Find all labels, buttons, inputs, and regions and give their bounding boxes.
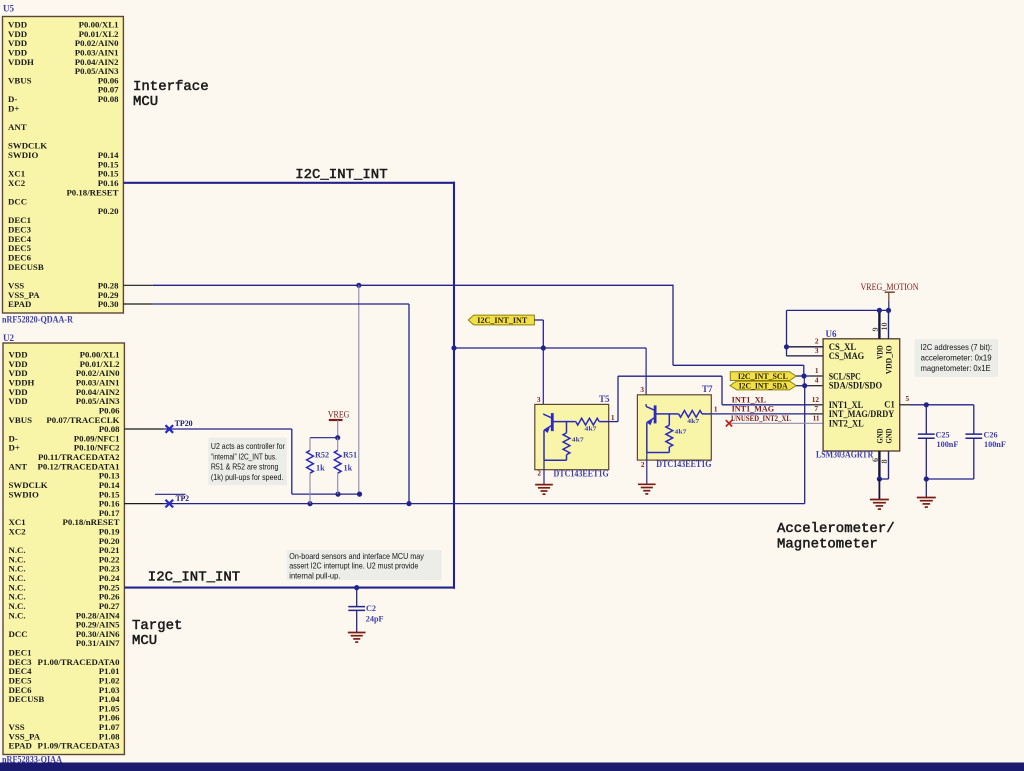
svg-text:SWDIO: SWDIO [9, 489, 39, 499]
note I2C addresses [915, 339, 999, 377]
junction R52 bottom [307, 501, 312, 506]
wire R52-R51 tops [310, 437, 338, 439]
ground T5 [535, 484, 553, 486]
svg-text:D+: D+ [8, 103, 19, 113]
pin stub U6.7 [810, 413, 823, 415]
svg-text:XC2: XC2 [8, 178, 26, 188]
TP2 bar [155, 493, 186, 495]
IC U6 LSM303AGRTR [823, 339, 900, 451]
wire caps to ground [925, 479, 927, 498]
wire CS_MAG [787, 355, 824, 357]
svg-text:4k7: 4k7 [585, 425, 597, 432]
svg-text:3: 3 [640, 385, 644, 394]
svg-text:DECUSB: DECUSB [9, 694, 45, 704]
svg-text:assert I2C interrupt line. U2: assert I2C interrupt line. U2 must provi… [289, 561, 418, 571]
svg-text:I2C_INT_SCL: I2C_INT_SCL [738, 372, 788, 381]
global label I2C_INT_INT [468, 315, 534, 325]
junction R51 bottom [335, 492, 340, 497]
wire SCL from U5.P0.28 [153, 284, 673, 286]
svg-text:ANT: ANT [9, 461, 28, 471]
testpoint TP2 [166, 500, 174, 508]
svg-text:5: 5 [906, 394, 910, 403]
svg-text:4k7: 4k7 [675, 429, 687, 436]
svg-text:magnetometer: 0x1E: magnetometer: 0x1E [921, 363, 991, 373]
svg-text:LSM303AGRTR: LSM303AGRTR [816, 449, 874, 459]
svg-text:I2C_INT_INT: I2C_INT_INT [477, 316, 527, 325]
wire INT1_MAG [712, 413, 810, 415]
svg-text:I2C_INT_INT: I2C_INT_INT [295, 167, 387, 183]
svg-text:N.C.: N.C. [9, 610, 26, 620]
wire SCL riser to R51 [358, 285, 360, 494]
svg-text:3: 3 [537, 395, 541, 404]
ground U6 [870, 499, 889, 501]
svg-text:On-board sensors and interface: On-board sensors and interface MCU may [289, 551, 424, 561]
IC U5 nRF52820 interface MCU [3, 17, 124, 314]
svg-text:1: 1 [611, 413, 615, 422]
capacitor C26 [973, 405, 975, 434]
svg-text:R52: R52 [315, 451, 329, 460]
capacitor C2 [356, 588, 358, 607]
wire U6 pin9 [878, 310, 880, 338]
wire I2C_INT_INT top (U5.P0.16) [123, 182, 455, 184]
wire I2C_INT_INT vertical [453, 182, 455, 589]
junction SDA drop [406, 501, 411, 506]
svg-text:C1: C1 [884, 400, 895, 410]
pin stub U5.P0.30 [123, 303, 152, 305]
wire U6 pin10 [888, 310, 890, 338]
svg-text:R51 & R52 are strong: R51 & R52 are strong [211, 462, 279, 472]
svg-text:100nF: 100nF [937, 440, 959, 449]
svg-text:U2: U2 [3, 333, 14, 343]
wire label to branch [534, 319, 543, 321]
junction int branch [451, 345, 456, 350]
svg-text:EPAD: EPAD [8, 299, 31, 309]
svg-text:“internal” I2C_INT bus.: “internal” I2C_INT bus. [211, 451, 277, 461]
junction SDA [802, 383, 807, 388]
pin stub U2.P0.08 [124, 428, 163, 430]
svg-text:1: 1 [815, 366, 819, 375]
svg-text:1k: 1k [316, 464, 325, 473]
ground T7 [638, 483, 656, 485]
junction SCL/R51 riser [356, 283, 361, 288]
global label I2C_INT_SCL [730, 372, 796, 381]
svg-text:4k7: 4k7 [687, 418, 699, 425]
svg-text:U2 acts as controller for: U2 acts as controller for [211, 441, 285, 451]
svg-text:2: 2 [815, 337, 819, 346]
pin stub U5.P0.28 [123, 284, 152, 286]
svg-text:VBUS: VBUS [8, 75, 32, 85]
pin stub U6.1 [810, 375, 823, 377]
svg-text:EPAD: EPAD [9, 741, 32, 751]
svg-text:DCC: DCC [9, 629, 28, 639]
svg-text:4k7: 4k7 [572, 436, 584, 443]
svg-text:INT2_XL: INT2_XL [829, 419, 864, 429]
junction SCL [801, 373, 806, 378]
junction SCL corner [357, 492, 362, 497]
wire SDA label to pin4 [796, 385, 810, 387]
svg-text:11: 11 [813, 413, 820, 422]
svg-text:CS_MAG: CS_MAG [829, 352, 865, 362]
svg-text:DECUSB: DECUSB [8, 262, 44, 272]
capacitor C25 [925, 405, 927, 434]
junction caps gnd [924, 476, 929, 481]
resistor R51 [337, 438, 339, 451]
svg-text:ANT: ANT [8, 122, 27, 132]
svg-text:Accelerometer/: Accelerometer/ [777, 521, 895, 537]
junction R51 top [335, 435, 340, 440]
svg-text:U6: U6 [826, 329, 837, 339]
svg-text:internal pull-up.: internal pull-up. [289, 570, 340, 580]
wire SCL from U2.P0.08 (TP20) [163, 428, 292, 430]
junction pin10 [886, 308, 891, 313]
note pullups [208, 438, 286, 486]
svg-text:TP20: TP20 [175, 418, 193, 428]
wire U6 pin8 [888, 451, 890, 479]
transistor T5 DTC143EET1G [535, 404, 609, 469]
wire I2C_INT_INT bottom (U2.P0.25) [124, 587, 455, 589]
svg-text:1k: 1k [344, 464, 353, 473]
svg-text:DTC143EET1G: DTC143EET1G [656, 459, 711, 469]
IC U2 nRF52833 target MCU [3, 343, 124, 755]
no-connect X [726, 420, 732, 426]
svg-text:T7: T7 [702, 384, 713, 394]
svg-text:P1.09/TRACEDATA3: P1.09/TRACEDATA3 [37, 741, 120, 751]
svg-text:P0.20: P0.20 [98, 206, 119, 216]
ground C25 C26 [917, 497, 936, 499]
wire VDD rail [787, 309, 889, 311]
wire SCL label to pin1 [796, 375, 810, 377]
svg-text:I2C_INT_INT: I2C_INT_INT [148, 569, 240, 585]
svg-text:1: 1 [714, 405, 718, 414]
svg-text:I2C addresses (7 bit):: I2C addresses (7 bit): [921, 342, 993, 352]
resistor R52 [309, 438, 311, 451]
svg-text:7: 7 [814, 404, 818, 413]
svg-text:I2C_INT_SDA: I2C_INT_SDA [739, 382, 788, 391]
wire C1 pin5 [910, 404, 974, 406]
svg-text:12: 12 [812, 395, 820, 404]
wire int branch [454, 347, 646, 349]
svg-text:2: 2 [537, 469, 541, 478]
svg-text:Magnetometer: Magnetometer [777, 537, 878, 553]
svg-text:Interface: Interface [133, 79, 209, 95]
junction pin9 [877, 308, 882, 313]
svg-text:GND: GND [884, 429, 894, 444]
sheet frame bar [0, 763, 1024, 771]
junction label drop [541, 345, 546, 350]
wire U6 pin6 [878, 451, 880, 479]
svg-text:DTC143EET1G: DTC143EET1G [554, 469, 609, 479]
svg-text:R51: R51 [343, 451, 357, 460]
svg-text:P0.31/AIN7: P0.31/AIN7 [76, 638, 120, 648]
svg-text:VREG: VREG [328, 409, 350, 419]
svg-text:SDA/SDI/SDO: SDA/SDI/SDO [829, 382, 883, 392]
wire T7 collector [645, 348, 647, 405]
wire to ground [878, 479, 880, 500]
svg-text:TP2: TP2 [176, 493, 190, 503]
wire T5 collector [542, 348, 544, 414]
wire scl-sda segment [803, 376, 805, 386]
svg-text:accelerometer: 0x19: accelerometer: 0x19 [921, 352, 992, 362]
svg-text:Target: Target [132, 618, 182, 634]
svg-text:MCU: MCU [132, 633, 157, 649]
pin stub U6.5 [900, 404, 910, 406]
junction gnd [877, 476, 882, 481]
svg-text:P0.08: P0.08 [98, 94, 119, 104]
svg-text:VDD: VDD [9, 396, 28, 406]
wire caps bottom [926, 478, 974, 480]
wire INT1_XL [609, 421, 618, 423]
junction C25 top [924, 402, 929, 407]
svg-text:C25: C25 [936, 431, 950, 440]
pin stub U6.4 [810, 385, 823, 387]
svg-text:SWDIO: SWDIO [8, 150, 38, 160]
svg-text:T5: T5 [599, 394, 610, 404]
svg-text:D+: D+ [9, 443, 20, 453]
svg-text:VREG_MOTION: VREG_MOTION [861, 282, 919, 292]
svg-text:C2: C2 [366, 604, 376, 613]
ground C2 [348, 632, 366, 634]
svg-text:24pF: 24pF [366, 615, 384, 624]
svg-text:100nF: 100nF [984, 440, 1006, 449]
svg-text:VDD_IO: VDD_IO [884, 345, 894, 374]
svg-text:8: 8 [880, 459, 889, 463]
transistor T7 DTC143EET1G [637, 395, 711, 460]
svg-text:nRF52820-QDAA-R: nRF52820-QDAA-R [2, 315, 73, 325]
testpoint TP20 [166, 425, 174, 433]
pin stub U2.P0.16 [124, 503, 163, 505]
svg-text:P0.18/RESET: P0.18/RESET [66, 187, 118, 197]
global label I2C_INT_SDA [730, 381, 796, 390]
wire SDA from U2.P0.16 (TP2) [163, 503, 805, 505]
svg-text:(1k) pull-ups for speed.: (1k) pull-ups for speed. [211, 472, 284, 482]
svg-text:U5: U5 [3, 4, 14, 14]
wire gnd join [879, 478, 888, 480]
note interrupt [287, 550, 442, 580]
svg-text:4: 4 [815, 376, 819, 385]
svg-text:VBUS: VBUS [9, 415, 33, 425]
wire SDA from U5.P0.30 [153, 303, 409, 305]
svg-text:10: 10 [880, 322, 889, 330]
svg-text:P0.30: P0.30 [98, 299, 119, 309]
pin stub U6.12 [810, 404, 823, 406]
svg-text:VDDH: VDDH [8, 57, 34, 67]
junction CS [784, 344, 789, 349]
junction C2 [354, 585, 359, 590]
svg-text:DCC: DCC [8, 197, 27, 207]
wire UNUSED_INT2_XL [729, 422, 823, 424]
svg-text:2: 2 [641, 460, 645, 469]
svg-text:C26: C26 [984, 431, 998, 440]
svg-text:MCU: MCU [133, 94, 158, 110]
svg-text:XC2: XC2 [9, 526, 27, 536]
svg-text:UNUSED_INT2_XL: UNUSED_INT2_XL [731, 413, 791, 423]
wire CS_XL [787, 346, 824, 348]
